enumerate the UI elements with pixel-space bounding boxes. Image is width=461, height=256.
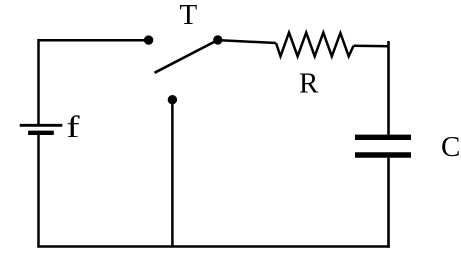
svg-text:C: C	[441, 131, 460, 163]
wire bottom horizontal	[37, 245, 390, 248]
wire left vertical lower (battery to bottom)	[37, 135, 40, 247]
wire top-left horizontal (battery + to switch)	[39, 39, 147, 42]
wire right vertical upper (to capacitor)	[387, 41, 390, 135]
capacitor C bottom plate	[355, 152, 411, 157]
battery f short plate	[28, 131, 54, 135]
wire switch right terminal to resistor	[218, 40, 276, 43]
node switch left terminal	[144, 35, 153, 44]
node switch right terminal	[213, 35, 222, 44]
svg-text:R: R	[299, 67, 319, 99]
svg-text:f: f	[66, 109, 79, 144]
node switch lower terminal	[168, 95, 177, 104]
wire middle vertical (switch lower terminal to bottom)	[171, 100, 174, 247]
wire left vertical upper (top to battery)	[37, 39, 40, 124]
capacitor C top plate	[355, 135, 411, 140]
svg-text:T: T	[180, 0, 198, 31]
resistor R	[276, 33, 354, 57]
wire resistor to right vertical	[354, 45, 389, 48]
wire right vertical lower (capacitor to bottom)	[387, 158, 390, 248]
switch T blade	[155, 40, 218, 73]
battery f long plate	[20, 124, 63, 127]
